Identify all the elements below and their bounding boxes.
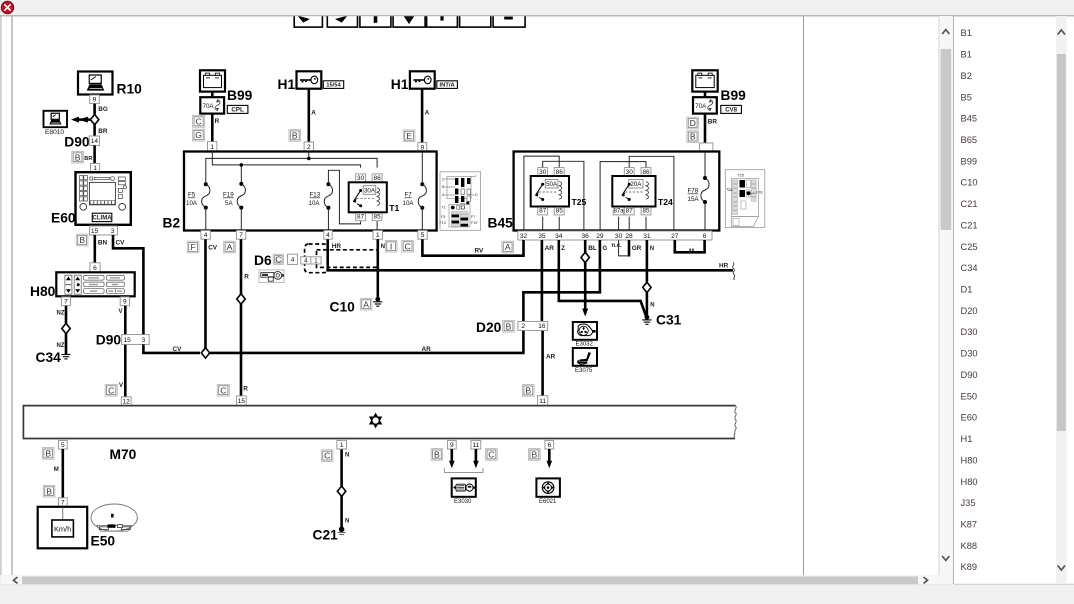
svg-text:D90: D90	[961, 370, 978, 380]
tag 15/54	[323, 81, 343, 89]
svg-text:T24: T24	[658, 197, 673, 207]
pin 7 of E50	[58, 498, 67, 507]
svg-text:M70: M70	[110, 447, 137, 462]
svg-text:H80: H80	[30, 284, 56, 299]
svg-text:BL: BL	[588, 245, 597, 252]
svg-text:15/54: 15/54	[326, 83, 341, 89]
svg-text:F: F	[190, 242, 195, 252]
internal wire pin 29 to T24 86	[600, 162, 646, 231]
component E6021 blower	[536, 478, 560, 504]
svg-text:C31: C31	[656, 312, 682, 327]
close button	[1, 1, 13, 13]
harness code D	[687, 117, 699, 129]
svg-text:11: 11	[472, 442, 479, 449]
ground C31	[642, 315, 651, 324]
pin 12 of M70	[121, 397, 131, 406]
canvas vertical scrollbar	[939, 16, 953, 575]
svg-text:6: 6	[547, 442, 551, 449]
svg-text:J35: J35	[961, 498, 976, 508]
relay T1 30A inside B2	[349, 174, 400, 221]
svg-text:R10: R10	[117, 82, 143, 97]
svg-text:AR: AR	[546, 353, 556, 360]
svg-text:14: 14	[91, 138, 99, 145]
pin 11 of M70 top	[538, 396, 548, 406]
battery B99 (CV8)	[692, 70, 717, 91]
svg-text:T25: T25	[738, 174, 745, 178]
harness code C	[105, 384, 117, 396]
component E8010 connector for diagnosis	[44, 111, 68, 136]
svg-text:C: C	[195, 116, 201, 126]
svg-text:F19: F19	[223, 192, 234, 199]
wire RV from B2 pin 5 to B45 pin 32	[422, 239, 523, 256]
svg-text:F7: F7	[405, 192, 413, 199]
connector pictogram near E50	[91, 504, 137, 531]
svg-text:E60: E60	[51, 210, 76, 225]
wire AR from B45 pin 35 through D20 pin 16 to M70 pin 11	[541, 240, 544, 397]
svg-text:C: C	[404, 241, 410, 251]
svg-text:RV: RV	[475, 248, 484, 255]
svg-text:T1: T1	[389, 203, 399, 213]
svg-text:E6021: E6021	[539, 499, 557, 505]
wire HR from B2 pin 4 to right (with break)	[328, 239, 733, 270]
svg-text:F13: F13	[440, 221, 446, 225]
svg-text:H80: H80	[961, 455, 978, 465]
wire CV from D90 pin 3 to junction	[143, 344, 200, 353]
svg-text:NZ: NZ	[57, 343, 65, 349]
harness code B	[687, 131, 699, 143]
component E3075 heated seat	[573, 348, 597, 374]
svg-text:1: 1	[210, 144, 214, 151]
wire BN from E60 pin 15 to H80 pin 6	[94, 235, 97, 263]
svg-text:70A: 70A	[203, 103, 215, 110]
pins 7 and 9 of H80	[61, 297, 70, 306]
svg-text:D1: D1	[961, 285, 973, 295]
svg-text:K89: K89	[961, 562, 978, 572]
pin 1 of B2	[208, 142, 217, 152]
connector D6 dashed outline	[305, 244, 328, 273]
internal wire T25 87 to pin 35	[542, 217, 544, 231]
svg-text:R: R	[215, 118, 220, 125]
internal wires T24 87a 87 85 down	[619, 217, 646, 231]
svg-text:E3032: E3032	[576, 342, 594, 348]
svg-text:INT/A: INT/A	[440, 83, 456, 89]
svg-text:32: 32	[520, 233, 528, 240]
wire R from B2 pin 7 to M70 pin 15	[240, 239, 243, 396]
pin 1 of M70	[337, 440, 347, 449]
pin 11 of M70 bottom	[471, 440, 481, 449]
svg-text:B: B	[434, 450, 440, 460]
component M70 instrument panel bar	[23, 406, 736, 439]
wire BL from B45 pin 36 to E3032	[584, 240, 587, 314]
svg-text:T25: T25	[572, 197, 587, 207]
svg-text:87: 87	[626, 208, 634, 215]
connector D6 pictogram	[259, 270, 284, 283]
svg-text:87a: 87a	[614, 209, 625, 215]
svg-text:B45: B45	[961, 114, 978, 124]
svg-text:10A: 10A	[403, 200, 415, 207]
ground C10	[373, 297, 382, 306]
svg-text:D6: D6	[254, 253, 272, 268]
wire M from M70 pin 5 to E50	[61, 449, 64, 498]
component B45 relay box body	[514, 152, 720, 231]
svg-text:B99: B99	[721, 88, 747, 103]
svg-text:T1: T1	[442, 206, 446, 210]
page right border	[803, 16, 805, 575]
svg-text:D30: D30	[961, 327, 978, 337]
svg-text:R: R	[244, 273, 249, 280]
svg-text:16: 16	[538, 323, 546, 330]
D20 pins 2 and 16	[518, 321, 548, 330]
svg-text:86: 86	[642, 169, 650, 176]
svg-text:C: C	[324, 451, 330, 461]
svg-text:4: 4	[291, 257, 295, 264]
svg-text:M: M	[689, 249, 694, 255]
wire N from B2 pin 1 to ground C10	[376, 239, 379, 299]
pin 1 of B2 (N)	[373, 231, 382, 240]
svg-text:F78: F78	[756, 191, 763, 195]
wire AR from junction to D20 pin 2	[210, 330, 523, 353]
harness code A	[224, 241, 236, 253]
component E3032 climate blower	[573, 322, 597, 348]
svg-text:C10: C10	[330, 300, 356, 315]
svg-text:I: I	[390, 241, 392, 251]
connector count 4	[288, 254, 298, 264]
wire Z from B45 pin 34 to ground C31	[559, 240, 647, 317]
svg-text:D20: D20	[476, 320, 502, 335]
svg-text:1: 1	[340, 442, 344, 449]
svg-text:D30: D30	[961, 349, 978, 359]
harness code B	[42, 448, 54, 460]
unnumbered pin of B45	[700, 143, 713, 152]
svg-text:CV: CV	[208, 245, 218, 252]
pin 2 of B2	[304, 142, 313, 152]
svg-text:K88: K88	[961, 541, 978, 551]
svg-text:30: 30	[357, 175, 365, 182]
fuse F78 15A inside B45	[704, 152, 706, 232]
svg-text:86: 86	[374, 175, 382, 182]
ground C21	[338, 527, 346, 535]
svg-text:30: 30	[539, 169, 547, 176]
svg-text:15: 15	[91, 228, 99, 235]
pin 15 of M70	[237, 396, 247, 406]
svg-text:AR: AR	[422, 346, 432, 353]
svg-text:9: 9	[123, 299, 127, 306]
fuse F7 10A	[418, 182, 426, 210]
svg-text:6: 6	[93, 265, 97, 272]
svg-text:C: C	[488, 450, 494, 460]
right list scrollbar	[1056, 16, 1067, 584]
svg-text:Z: Z	[561, 246, 565, 252]
pin 4 of B2 (HR)	[324, 231, 332, 240]
svg-text:3: 3	[142, 337, 146, 344]
harness code B	[43, 485, 55, 497]
internal rail from pin 2 / F5 to relay T1 86	[206, 158, 377, 184]
harness code B	[72, 151, 84, 163]
svg-text:7: 7	[239, 232, 243, 239]
svg-text:BR: BR	[708, 118, 718, 125]
svg-text:2: 2	[521, 323, 525, 330]
svg-text:E60: E60	[961, 413, 978, 423]
component R10 diagnostic socket	[78, 72, 113, 95]
svg-text:N: N	[345, 453, 349, 459]
fuse F13 10A	[324, 182, 332, 210]
svg-text:D: D	[475, 193, 478, 197]
tag INT/A	[437, 81, 458, 89]
svg-text:V: V	[119, 383, 123, 389]
svg-text:F5: F5	[188, 192, 196, 199]
wire CV from B2 pin 4 to junction diamond	[204, 239, 207, 348]
wire N from B45 pin 31 to ground C31	[646, 240, 649, 318]
svg-text:B: B	[532, 450, 538, 460]
harness code C	[486, 449, 498, 461]
svg-text:86: 86	[556, 169, 564, 176]
internal wire pin32 to T25 86	[524, 156, 559, 231]
tag CV8	[721, 105, 742, 113]
wire A from H1 INT/A to B2 pin 9	[421, 89, 424, 143]
svg-text:6: 6	[703, 233, 707, 240]
svg-text:10A: 10A	[309, 200, 321, 207]
svg-text:A: A	[227, 242, 233, 252]
component B2 fuse box body	[184, 152, 437, 231]
svg-text:C25: C25	[961, 242, 978, 252]
svg-text:CV8: CV8	[725, 107, 738, 114]
svg-text:K87: K87	[961, 520, 978, 530]
harness code C	[217, 384, 229, 396]
svg-text:A: A	[505, 242, 511, 252]
svg-text:F13: F13	[310, 192, 321, 199]
svg-text:H1: H1	[278, 77, 296, 92]
fuse F78 15A	[701, 176, 709, 204]
svg-text:G: G	[195, 130, 202, 140]
svg-text:H1: H1	[391, 77, 409, 92]
svg-text:9: 9	[450, 442, 454, 449]
wire CV from E60 pin 3 to D90 pin 3	[113, 235, 143, 335]
svg-text:BR: BR	[84, 156, 92, 162]
wire branch to E8010 with arrow	[71, 117, 90, 123]
component E60 climate control unit	[76, 172, 131, 225]
inset fuse location map for B2	[440, 172, 481, 231]
warning lamp symbol inside M70	[369, 413, 382, 429]
svg-text:D90: D90	[96, 333, 122, 348]
svg-text:87: 87	[539, 208, 547, 215]
wire G from B45 pin 29 to D20 pin 2	[523, 240, 600, 321]
svg-text:30: 30	[626, 169, 634, 176]
svg-text:B2: B2	[961, 71, 972, 81]
svg-text:9: 9	[93, 97, 97, 104]
svg-text:7: 7	[61, 499, 65, 506]
svg-text:N: N	[650, 303, 654, 309]
svg-text:29: 29	[596, 233, 604, 240]
svg-text:AR: AR	[545, 245, 555, 252]
component H1 ignition switch 15/54	[297, 71, 322, 88]
pin 1 of E60	[91, 163, 100, 172]
fuse 70A box of B99	[200, 97, 224, 113]
harness code E	[403, 130, 415, 142]
svg-text:D20: D20	[961, 306, 978, 316]
wire M loop pins 27-6	[675, 240, 705, 252]
harness code B	[503, 320, 515, 332]
svg-text:31: 31	[643, 233, 651, 240]
svg-text:C: C	[108, 385, 114, 395]
fuse F5 10A	[202, 182, 210, 209]
break squiggle on HR wire	[733, 263, 735, 281]
pin 14 of D90	[89, 136, 99, 145]
svg-text:I: I	[475, 175, 476, 179]
inset relay location map for B45	[725, 170, 765, 228]
svg-text:36: 36	[582, 233, 590, 240]
svg-text:B: B	[75, 152, 81, 162]
svg-text:M: M	[54, 467, 59, 473]
svg-text:C: C	[275, 254, 281, 264]
junction node to E8010	[90, 114, 98, 124]
svg-text:B99: B99	[961, 156, 978, 166]
junction on R wire	[237, 294, 245, 304]
svg-text:E50: E50	[961, 391, 978, 401]
wire BG from R10 pin 9	[93, 104, 96, 115]
wire R from B99 fuse to B2 pin 1	[211, 114, 214, 142]
ground C34	[61, 355, 70, 359]
harness code B	[289, 130, 301, 142]
svg-text:A: A	[425, 109, 430, 116]
svg-text:F19: F19	[471, 221, 477, 225]
svg-text:E3075: E3075	[575, 368, 593, 374]
svg-text:F5: F5	[441, 215, 445, 219]
wire BR from junction to D90	[93, 125, 96, 136]
pins 15 and 3 of E60	[90, 226, 118, 235]
wire T1 85 to pin 1	[376, 221, 378, 230]
component E3030 rear window heater	[452, 478, 476, 504]
harness code C	[321, 450, 333, 462]
svg-text:C21: C21	[961, 220, 978, 230]
component H80 heater control panel	[56, 272, 134, 296]
svg-text:B99: B99	[227, 88, 253, 103]
tag CPL	[227, 105, 248, 113]
wire V from H80 pin 9 through D90 pin 15 to M70 pin 12	[124, 306, 127, 397]
horizontal scrollbar	[1, 576, 952, 587]
svg-text:B: B	[506, 321, 512, 331]
pin 5 of B2 (RV)	[418, 231, 427, 240]
bracket under arrows 9 and 11	[444, 468, 483, 472]
pin 6 of H80	[90, 263, 100, 272]
B45 bottom pin strip	[518, 231, 712, 240]
pin 9 of M70	[447, 440, 456, 449]
svg-text:3: 3	[111, 228, 115, 235]
svg-text:4: 4	[204, 232, 208, 239]
svg-text:E50: E50	[91, 534, 116, 549]
svg-text:C: C	[442, 178, 445, 182]
svg-text:50A: 50A	[546, 181, 558, 188]
svg-text:BN: BN	[98, 239, 108, 246]
pin 4 of B2 (CV)	[201, 231, 210, 240]
svg-text:GR: GR	[632, 245, 642, 252]
relay T24 20A inside B45	[612, 168, 673, 215]
arrow wires from M70 pins 9 11 6	[449, 449, 552, 468]
svg-text:B65: B65	[961, 135, 978, 145]
svg-text:11: 11	[539, 398, 546, 405]
svg-text:B: B	[46, 486, 52, 496]
svg-text:A: A	[363, 299, 369, 309]
svg-text:85: 85	[642, 208, 650, 215]
svg-text:15A: 15A	[688, 196, 700, 203]
relay T25 50A inside B45	[531, 168, 587, 215]
D90 pins 15 and 3	[122, 335, 150, 345]
harness code B	[76, 234, 88, 246]
svg-text:H1: H1	[961, 434, 973, 444]
harness code A	[360, 298, 372, 310]
internal wire T24 30 to pin 27	[629, 156, 674, 231]
D6 pins 4 and 1	[301, 257, 321, 265]
svg-text:2: 2	[307, 144, 311, 151]
harness code A	[502, 241, 514, 253]
svg-text:CV: CV	[116, 239, 126, 246]
tag CLIMA	[92, 213, 112, 221]
junction on BL wire	[581, 252, 589, 262]
svg-text:28: 28	[625, 233, 633, 240]
svg-text:5: 5	[61, 442, 65, 449]
svg-text:C10: C10	[961, 178, 978, 188]
svg-text:4: 4	[326, 232, 330, 239]
toolbar buttons (cropped at top of canvas)	[294, 10, 525, 27]
svg-text:B1: B1	[961, 28, 972, 38]
svg-text:20A: 20A	[630, 181, 642, 188]
svg-text:30: 30	[615, 233, 623, 240]
svg-text:12: 12	[123, 399, 131, 406]
svg-text:B45: B45	[488, 216, 514, 231]
svg-text:5: 5	[421, 232, 425, 239]
svg-text:B: B	[79, 235, 85, 245]
shield dashed box to pin1 wire	[317, 250, 378, 268]
svg-text:C34: C34	[36, 350, 62, 365]
svg-text:E: E	[406, 131, 412, 141]
svg-text:n.c.: n.c.	[612, 243, 623, 249]
component E50 speed sensor display	[38, 507, 87, 549]
svg-text:N: N	[650, 246, 654, 252]
svg-text:7: 7	[64, 299, 68, 306]
window top strip	[0, 0, 1074, 16]
svg-text:D90: D90	[64, 134, 90, 149]
svg-text:F7: F7	[471, 215, 475, 219]
svg-text:BG: BG	[98, 106, 108, 113]
svg-text:E3030: E3030	[454, 499, 472, 505]
svg-text:34: 34	[555, 233, 563, 240]
n.c. stub pins 30-28	[619, 240, 629, 256]
svg-text:D: D	[690, 118, 696, 128]
junction on N wire C21	[337, 486, 345, 496]
svg-text:N: N	[381, 244, 385, 250]
pin 7 of B2 (R)	[236, 231, 245, 240]
svg-text:85: 85	[374, 214, 382, 221]
junction on NZ wire	[62, 323, 70, 333]
svg-text:R: R	[243, 385, 248, 392]
svg-text:HR: HR	[332, 243, 342, 250]
svg-text:CPL: CPL	[231, 107, 244, 114]
svg-text:30A: 30A	[364, 187, 376, 194]
svg-text:N: N	[345, 518, 349, 524]
svg-text:Km/h: Km/h	[54, 525, 71, 534]
svg-text:F78: F78	[688, 188, 699, 195]
svg-text:G: G	[603, 246, 608, 252]
svg-text:CLIMA: CLIMA	[93, 216, 113, 222]
svg-text:27: 27	[671, 233, 679, 240]
harness code B	[529, 449, 541, 461]
junction on N wire	[643, 282, 651, 292]
battery B99 (CPL)	[200, 70, 225, 91]
svg-text:35: 35	[538, 233, 546, 240]
fuse 70A box of B99 right	[693, 97, 717, 113]
internal wire T25 30 to pin 36	[543, 161, 584, 231]
bottom gray strip	[0, 585, 1074, 604]
harness code I	[385, 240, 397, 252]
